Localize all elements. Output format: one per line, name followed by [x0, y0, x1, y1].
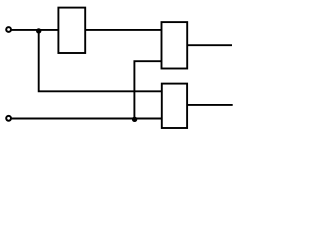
- wire input B to U3 input 2: [11, 118, 161, 120]
- junction node B: [132, 117, 137, 122]
- wire U2 output: [187, 44, 232, 46]
- gate U1: [58, 8, 85, 53]
- gate U3: [162, 84, 187, 128]
- wire node B branch up and right to U2 input 2: [134, 61, 161, 118]
- wire input A to U1: [11, 29, 58, 31]
- wire node A branch down and right to U3 input 1: [39, 30, 162, 91]
- wire U3 output: [187, 104, 233, 106]
- junction node A: [36, 28, 41, 33]
- terminal input B: [6, 116, 11, 121]
- wire U1 output to U2 input 1: [85, 29, 161, 31]
- terminal input A: [6, 27, 11, 32]
- gate U2: [162, 22, 188, 68]
